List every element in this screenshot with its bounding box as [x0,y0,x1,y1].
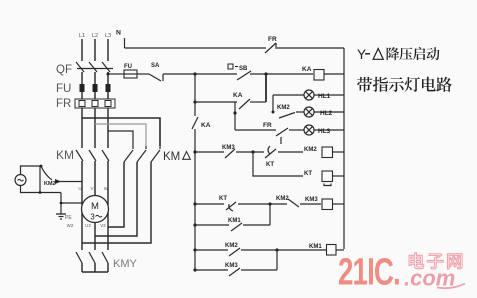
wire SB to KA coil [250,73,313,75]
breaker QF [56,62,113,76]
svg-text:SA: SA [151,63,160,69]
wire KM1 NC branch [195,224,229,226]
wire KT coil to bus [333,175,344,177]
svg-text:U: U [78,186,81,191]
wire latch vertical [265,75,267,102]
svg-text:W2: W2 [67,223,74,228]
wire row204 mid [238,203,287,205]
wire left bus top [194,74,196,116]
contact KM2 NO [225,243,240,256]
node W1 [104,186,109,191]
junction dot 277,250 [275,248,278,251]
svg-text:L3: L3 [105,33,111,39]
wire L1 incoming [81,39,83,61]
switch SA [149,63,163,81]
fuse FU (3-phase) [56,83,111,95]
svg-text:FR: FR [268,36,277,43]
wire PE to motor frame [61,202,83,204]
svg-text:3: 3 [90,213,95,222]
contact FR NO [263,122,288,144]
wire left bus lower [194,129,196,270]
wire lamp top [21,166,42,175]
svg-text:HL3: HL3 [318,128,331,135]
wire latch right [250,101,266,103]
wire right bus [343,48,345,249]
svg-text:KA: KA [302,66,312,73]
wire KM2 coil to bus [333,151,344,153]
wire KA latch branch [195,101,237,103]
contact KM3 interlock [222,145,235,158]
junction dot L3 control tap [107,73,110,76]
wire KM3 NO branch [195,269,228,271]
wire drop to FR row [234,102,236,130]
title line 1 [357,47,440,62]
wire FU2 to SA switch [137,73,149,75]
wire to ground [60,193,62,215]
junction dot node 266,74 [264,72,267,75]
svg-text:KM3: KM3 [305,197,318,203]
wire KM to motor U [81,161,83,205]
svg-text:KA: KA [201,122,211,129]
svg-text:KM1: KM1 [228,218,241,224]
contact FR NC [265,36,277,53]
button SB start [228,64,251,80]
wire N rail [125,47,267,49]
node V2 [100,223,106,228]
wire row152 mid [236,151,264,153]
svg-text:V: V [90,186,93,191]
svg-text:KM2: KM2 [304,147,317,153]
wire to HL2 lamp [296,111,304,113]
wire HL1 drop [272,95,274,112]
wire L3 incoming [107,39,109,61]
svg-text:N: N [116,30,121,37]
thermal relay FR [56,98,115,110]
node N [116,30,125,49]
junction dot 270,204 [268,202,271,205]
wire HL2 to bus [314,111,344,113]
node V1 [90,186,93,191]
wire SA to bus [163,73,195,75]
wire KM3 coil to bus [333,203,344,205]
lamp HL3 [304,125,331,135]
contact KT delayed [265,146,276,168]
svg-text:KM3: KM3 [225,263,238,269]
svg-text:SB: SB [239,66,248,72]
svg-text:.com: .com [404,266,455,291]
junction dots lamp circuit [39,165,63,205]
node U2 [85,223,91,228]
wire row204 to coil [300,203,321,205]
contact KM2 interlock [276,196,299,207]
svg-text:KA: KA [233,92,243,99]
wire HL3 to bus [314,129,344,131]
wire branch L3 to KM-delta pole1 [108,131,133,146]
coil KM1 [309,244,336,255]
coil KA [302,66,324,80]
svg-text:M: M [91,201,99,212]
wire row152 to coil [278,151,303,153]
svg-text:PE: PE [65,215,72,221]
wire start row [195,73,237,75]
svg-text:QF: QF [56,64,72,76]
wire branch L2 to KM-delta pole2 [95,124,146,146]
wire KM to motor W [107,161,109,205]
coil KT timer [304,171,333,186]
svg-text:HL2: HL2 [320,110,333,117]
svg-text:KM2: KM2 [276,196,289,202]
contact KT NC delayed [219,196,236,211]
svg-text:FU: FU [124,64,132,70]
ground PE [56,214,72,221]
contactor KM [56,148,109,162]
wire KM-delta pole1 loop to V2 [108,162,124,227]
node L3 [105,33,111,39]
wire KT coil row [253,152,303,176]
wire KM1 coil to bus [336,249,344,251]
junction dot 273,112 [272,111,275,114]
node W2 [67,223,74,228]
wire motor W2 down [81,213,83,250]
svg-text:KT: KT [304,171,312,177]
svg-text:Y: Y [357,47,366,62]
svg-text:L1: L1 [79,33,85,39]
svg-text:KM: KM [56,148,74,162]
svg-text:21IC.: 21IC. [338,251,400,293]
wire row225 to vertical [243,224,270,226]
contactor KMY [76,252,138,272]
wire HL1 to bus [314,94,344,96]
svg-text:KMY: KMY [113,258,138,270]
wire FR to HL3 lamp [289,129,304,131]
contact KA on bus [192,117,211,129]
wire L3 FU to FR [107,92,109,99]
svg-text:FU: FU [56,83,71,95]
wire KM to motor V [94,161,96,196]
wire L2 incoming [94,39,96,61]
svg-text:FR: FR [263,122,272,129]
wire branch vertical 2 [276,250,278,270]
svg-text:KM1: KM1 [309,244,322,250]
svg-text:KM2: KM2 [225,243,238,249]
wire KM-delta pole3 loop to W2 [82,162,151,243]
wire motor U2 down [94,223,96,251]
contact KA latch [233,92,250,109]
wire L1 FU to FR [81,92,83,99]
wire KM2 coil row [195,151,224,153]
wire L2 FR to KM [94,108,96,148]
wire L2 QF to FU [94,72,96,84]
wire L3 QF to FU [107,72,109,84]
switch SA2 blade [41,166,52,180]
contactor KM-delta [124,146,190,163]
wire row250 to coil [241,249,326,251]
svg-text:KT: KT [266,162,274,168]
wire lamp parallel vertical [39,166,41,193]
wire branch L1 to KM-delta pole3 [82,118,160,146]
svg-text:KM: KM [163,151,180,163]
lamp HL1 [304,90,331,100]
svg-text:V2: V2 [100,223,106,228]
lamp HL (left, with ~) [15,175,26,186]
wire branch vertical [269,204,271,225]
junction dot 235,113 [233,111,236,114]
contact KM2 lamp [277,105,295,118]
lamp HL2 [304,107,333,117]
wire L2 FU to FR [94,92,96,99]
watermark dianziwang [409,253,462,269]
node U1 [78,186,81,191]
wire KM1 coil row [195,249,228,251]
svg-text:KM2: KM2 [277,105,290,111]
svg-text:U2: U2 [85,223,91,228]
wire control feed [108,73,124,75]
motor M 3~ [82,196,109,223]
wire switch to U phase [56,181,82,183]
wire HL1 feed [273,94,304,96]
svg-text:FR: FR [56,98,71,110]
wire FR row [235,129,276,131]
title line 2 [357,77,452,92]
wire L1 FR to KM [81,108,83,148]
svg-text:KT: KT [219,196,227,202]
junction dot 253,152 [251,150,254,153]
wire L1 QF to FU [81,72,83,84]
coil KM2 [304,147,333,158]
wire KM3 coil row [195,203,224,205]
wire KM-delta pole2 loop to U2 [95,162,137,236]
wire L3 FR to KM [107,108,109,148]
wire lamp bottom [21,186,62,193]
svg-text:HL1: HL1 [318,93,331,100]
junction dots left bus [193,72,196,271]
node SA2 label [44,181,56,187]
contact KM3 [225,263,240,276]
svg-text:KM2: KM2 [44,181,56,187]
wire KA coil to right bus [324,73,344,75]
wire row270 to vertical [241,269,277,271]
wire N rail to corner [277,47,344,49]
svg-text:L2: L2 [92,33,98,39]
coil KM3 [305,197,333,210]
wire motor V2 down [107,213,109,250]
contact KM1 [228,218,242,231]
fuse FU2 control [124,64,137,78]
node L1 [79,33,85,39]
node L2 [92,33,98,39]
